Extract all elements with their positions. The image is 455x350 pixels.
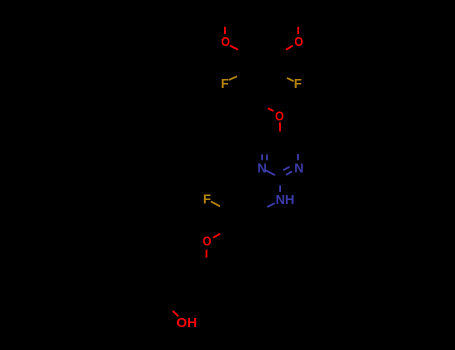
svg-text:F: F bbox=[221, 76, 229, 91]
svg-text:NH: NH bbox=[276, 192, 295, 207]
svg-text:O: O bbox=[294, 34, 303, 49]
svg-text:N: N bbox=[294, 160, 303, 175]
svg-text:O: O bbox=[275, 108, 284, 123]
svg-text:O: O bbox=[203, 234, 212, 249]
svg-text:F: F bbox=[203, 192, 211, 207]
svg-text:O: O bbox=[221, 34, 230, 49]
svg-text:OH: OH bbox=[176, 315, 197, 330]
svg-text:N: N bbox=[257, 160, 266, 175]
svg-text:F: F bbox=[294, 76, 302, 91]
